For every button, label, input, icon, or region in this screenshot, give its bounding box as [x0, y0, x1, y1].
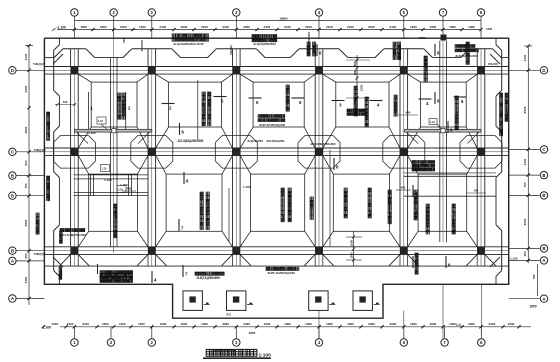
- svg-text:5: 5: [256, 100, 259, 105]
- svg-text:2: 2: [151, 10, 154, 15]
- svg-text:2400: 2400: [243, 322, 250, 326]
- svg-text:2: 2: [169, 106, 172, 111]
- svg-text:1200: 1200: [120, 25, 127, 29]
- svg-text:1.10: 1.10: [102, 167, 107, 170]
- svg-text:2000: 2000: [468, 322, 475, 326]
- svg-text:4: 4: [426, 101, 429, 106]
- svg-text:A: A: [542, 258, 546, 263]
- svg-text:6578: 6578: [523, 106, 527, 113]
- svg-text:6: 6: [461, 99, 464, 104]
- svg-text:2100: 2100: [222, 25, 229, 29]
- svg-text:A: A: [11, 259, 15, 264]
- svg-text:1500: 1500: [326, 322, 333, 326]
- svg-text:1000: 1000: [160, 322, 167, 326]
- svg-text:1.100: 1.100: [510, 257, 518, 261]
- svg-text:1800: 1800: [100, 25, 107, 29]
- svg-text:JCL1(1B)250x500: JCL1(1B)250x500: [61, 233, 86, 237]
- svg-text:4: 4: [318, 10, 321, 15]
- svg-text:4500: 4500: [523, 218, 527, 225]
- svg-text:1500: 1500: [508, 322, 515, 326]
- svg-text:1000: 1000: [410, 322, 417, 326]
- svg-text:1.10: 1.10: [98, 120, 103, 123]
- svg-text:2100: 2100: [347, 25, 354, 29]
- svg-text:2100: 2100: [82, 322, 89, 326]
- svg-text:5: 5: [403, 340, 406, 345]
- svg-text:6: 6: [448, 263, 451, 268]
- svg-text:1000: 1000: [264, 322, 271, 326]
- svg-text:JL1(2A)250x600 4C25: JL1(2A)250x600 4C25: [173, 42, 204, 46]
- svg-text:6: 6: [480, 10, 483, 15]
- svg-text:4C25:4C25/C8@200: 4C25:4C25/C8@200: [267, 271, 295, 275]
- svg-text:2: 2: [128, 106, 131, 111]
- svg-text:2000: 2000: [368, 322, 375, 326]
- svg-text:B: B: [11, 193, 14, 198]
- svg-text:2100: 2100: [368, 25, 375, 29]
- svg-text:1950: 1950: [410, 25, 417, 29]
- svg-text:1950: 1950: [430, 25, 437, 29]
- svg-text:B: B: [11, 248, 14, 253]
- svg-text:3: 3: [235, 10, 238, 15]
- svg-text:1.100: 1.100: [88, 131, 96, 135]
- svg-text:450: 450: [24, 253, 28, 258]
- svg-text:2100: 2100: [24, 53, 28, 60]
- svg-text:750: 750: [24, 183, 28, 188]
- svg-text:1: 1: [73, 340, 76, 345]
- svg-text:1:4: 1:4: [456, 323, 461, 327]
- svg-text:2100: 2100: [523, 158, 527, 165]
- svg-text:JL6(7A)250x600: JL6(7A)250x600: [196, 276, 220, 280]
- svg-text:7B(2B): 7B(2B): [229, 45, 233, 55]
- svg-text:1: 1: [73, 10, 76, 15]
- svg-text:6: 6: [336, 165, 339, 170]
- svg-text:250x600: 250x600: [488, 63, 498, 66]
- svg-text:1500: 1500: [530, 305, 537, 309]
- svg-text:6: 6: [186, 179, 189, 184]
- svg-text:1000: 1000: [51, 322, 58, 326]
- svg-text:2300: 2300: [419, 36, 426, 40]
- svg-text:B: B: [11, 173, 14, 178]
- svg-text:250x600: 250x600: [307, 32, 311, 44]
- svg-text:750: 750: [523, 182, 527, 187]
- svg-text:3: 3: [339, 103, 342, 108]
- svg-text:450: 450: [523, 251, 527, 256]
- svg-text:7: 7: [442, 10, 445, 15]
- svg-text:JCL3(5A)250x500: JCL3(5A)250x500: [177, 139, 204, 143]
- svg-text:1.100: 1.100: [104, 178, 112, 182]
- svg-text:1000: 1000: [201, 322, 208, 326]
- svg-text:750: 750: [122, 38, 126, 43]
- svg-text:2100: 2100: [284, 25, 291, 29]
- svg-text:JL1(2A)250x600: JL1(2A)250x600: [253, 42, 276, 46]
- svg-text:-1.100: -1.100: [57, 25, 67, 29]
- svg-text:4: 4: [154, 278, 157, 283]
- svg-text:JCL10(9B)250x600: JCL10(9B)250x600: [310, 142, 336, 146]
- svg-text:2000: 2000: [181, 25, 188, 29]
- svg-text:1500: 1500: [347, 322, 354, 326]
- svg-text:1500: 1500: [138, 322, 145, 326]
- svg-text:2: 2: [113, 10, 116, 15]
- svg-text:2000: 2000: [243, 25, 250, 29]
- svg-text:250x600: 250x600: [140, 39, 144, 51]
- svg-text:1000: 1000: [284, 322, 291, 326]
- svg-text:350: 350: [353, 70, 357, 75]
- svg-text:600: 600: [406, 111, 411, 115]
- svg-text:TJB@(Z): TJB@(Z): [34, 252, 46, 256]
- svg-text:D: D: [11, 68, 14, 73]
- svg-text:3300: 3300: [24, 85, 28, 92]
- svg-text:2000: 2000: [430, 322, 437, 326]
- svg-text:1000: 1000: [67, 322, 74, 326]
- svg-text:2100: 2100: [390, 25, 397, 29]
- svg-text:5: 5: [403, 10, 406, 15]
- svg-text:750: 750: [532, 274, 536, 279]
- svg-text:1900: 1900: [468, 25, 475, 29]
- svg-text:2: 2: [110, 340, 113, 345]
- svg-text:1500: 1500: [139, 25, 146, 29]
- svg-text:1: 1: [91, 106, 94, 111]
- svg-text:1.10: 1.10: [430, 121, 435, 124]
- svg-text:1250: 1250: [360, 84, 364, 91]
- svg-text:1500: 1500: [102, 322, 109, 326]
- svg-text:6: 6: [299, 100, 302, 105]
- svg-text:A: A: [542, 296, 546, 301]
- svg-text:2100: 2100: [201, 25, 208, 29]
- svg-text:6: 6: [480, 340, 483, 345]
- svg-text:2000: 2000: [181, 322, 188, 326]
- svg-text:2000: 2000: [222, 322, 229, 326]
- svg-text:1500: 1500: [80, 25, 87, 29]
- svg-text:2100: 2100: [326, 25, 333, 29]
- svg-text:1900: 1900: [449, 25, 456, 29]
- svg-text:900: 900: [24, 160, 28, 165]
- svg-text:4: 4: [377, 103, 380, 108]
- svg-text:1.100: 1.100: [243, 185, 251, 189]
- svg-text:400: 400: [474, 189, 479, 193]
- svg-text:TJB@(Z): TJB@(Z): [33, 62, 45, 66]
- svg-text:JCL5(5A)250: JCL5(5A)250: [266, 139, 285, 143]
- svg-text:C: C: [11, 150, 15, 155]
- svg-text:400: 400: [63, 100, 68, 104]
- svg-text:2100: 2100: [523, 54, 527, 61]
- svg-text:6: 6: [182, 130, 185, 135]
- svg-text:J-1: J-1: [226, 313, 231, 317]
- svg-text:D: D: [542, 68, 545, 73]
- svg-text:1000: 1000: [305, 322, 312, 326]
- svg-text:3150: 3150: [24, 276, 28, 283]
- svg-text:4500: 4500: [24, 219, 28, 226]
- svg-text:3600: 3600: [24, 126, 28, 133]
- svg-text:4: 4: [318, 340, 321, 345]
- svg-text:19800: 19800: [279, 17, 288, 21]
- svg-text:2100: 2100: [160, 25, 167, 29]
- svg-text:6: 6: [319, 51, 322, 56]
- svg-text:7: 7: [99, 275, 101, 279]
- svg-text:C: C: [542, 147, 546, 152]
- svg-text:2400: 2400: [489, 322, 496, 326]
- svg-text:1225: 1225: [486, 27, 493, 31]
- svg-text:3600: 3600: [249, 331, 256, 335]
- svg-text:650: 650: [353, 61, 357, 66]
- svg-text:B: B: [542, 193, 545, 198]
- svg-text:1500: 1500: [119, 322, 126, 326]
- svg-text:7: 7: [443, 340, 446, 345]
- svg-text:2000: 2000: [390, 322, 397, 326]
- svg-text:3: 3: [235, 340, 238, 345]
- svg-text:5: 5: [221, 99, 224, 104]
- svg-text:1050: 1050: [349, 239, 353, 246]
- svg-text:4C25:4C25/C8@200: 4C25:4C25/C8@200: [259, 123, 285, 127]
- svg-text:2100: 2100: [264, 25, 271, 29]
- svg-text:B: B: [542, 246, 545, 251]
- svg-text:JL3(1B)250: JL3(1B)250: [247, 139, 263, 143]
- svg-text:400: 400: [127, 187, 132, 191]
- svg-text:TJB@(Z): TJB@(Z): [34, 148, 46, 152]
- svg-text:7: 7: [185, 272, 188, 277]
- svg-text:7: 7: [181, 226, 184, 231]
- svg-text:400: 400: [401, 186, 406, 190]
- svg-text:1050: 1050: [349, 252, 353, 259]
- svg-text:B: B: [542, 173, 545, 178]
- svg-text:A: A: [11, 296, 15, 301]
- svg-text:2: 2: [151, 340, 154, 345]
- svg-text:2100: 2100: [305, 25, 312, 29]
